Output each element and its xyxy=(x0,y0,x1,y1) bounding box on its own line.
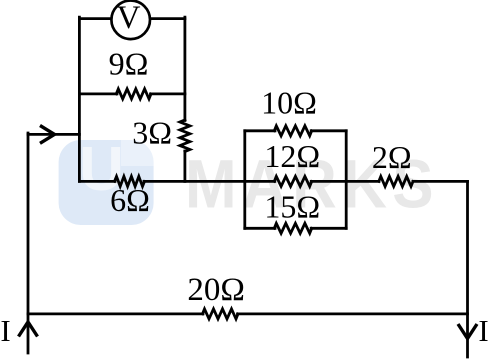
wire right inner vertical (lower) xyxy=(183,151,186,181)
wire outer left vertical xyxy=(27,133,30,353)
wire box bottom branch right xyxy=(311,227,346,230)
wire input horizontal xyxy=(28,133,79,136)
wire box right vertical xyxy=(345,131,348,229)
wire bottom left xyxy=(28,312,203,315)
watermark logo U xyxy=(59,135,154,225)
wire box top branch left xyxy=(245,129,275,132)
wire outer right vertical xyxy=(466,181,469,357)
wire bottom right xyxy=(238,312,468,315)
wire main 2ohm to right xyxy=(413,180,468,183)
voltmeter U1 xyxy=(111,0,150,39)
arrow current right xyxy=(40,126,55,144)
wire box top branch right xyxy=(311,129,346,132)
svg-text:10Ω: 10Ω xyxy=(261,84,317,120)
wire box bottom branch left xyxy=(245,227,275,230)
svg-text:6Ω: 6Ω xyxy=(110,182,150,218)
wire top (voltmeter branch) xyxy=(79,17,184,20)
resistor 20ohm xyxy=(203,309,239,319)
wire 9ohm branch left xyxy=(79,93,117,96)
svg-text:2Ω: 2Ω xyxy=(372,139,412,175)
svg-text:12Ω: 12Ω xyxy=(264,138,320,174)
arrow current down (right) xyxy=(458,324,477,339)
svg-text:20Ω: 20Ω xyxy=(187,272,245,308)
svg-text:I: I xyxy=(478,313,488,348)
svg-text:3Ω: 3Ω xyxy=(132,115,172,151)
resistor 12ohm xyxy=(274,176,311,186)
wire main box to 2ohm xyxy=(311,180,379,183)
wire main left xyxy=(79,180,115,183)
resistor 9ohm xyxy=(116,89,151,99)
resistor 10ohm xyxy=(274,126,311,136)
svg-text:I: I xyxy=(0,313,10,348)
resistor 15ohm xyxy=(274,223,311,233)
svg-text:9Ω: 9Ω xyxy=(109,45,149,81)
wire right inner vertical (upper) xyxy=(183,17,186,120)
svg-text:15Ω: 15Ω xyxy=(264,189,320,225)
wire box left vertical xyxy=(243,131,246,229)
resistor 6ohm xyxy=(115,176,145,186)
wire 9ohm branch right xyxy=(151,93,185,96)
arrow current up (left) xyxy=(19,322,38,337)
resistor 2ohm xyxy=(379,176,413,186)
wire main to box xyxy=(144,180,275,183)
wire left inner vertical xyxy=(78,17,81,181)
svg-text:V: V xyxy=(117,0,141,36)
resistor 3ohm xyxy=(180,120,190,152)
